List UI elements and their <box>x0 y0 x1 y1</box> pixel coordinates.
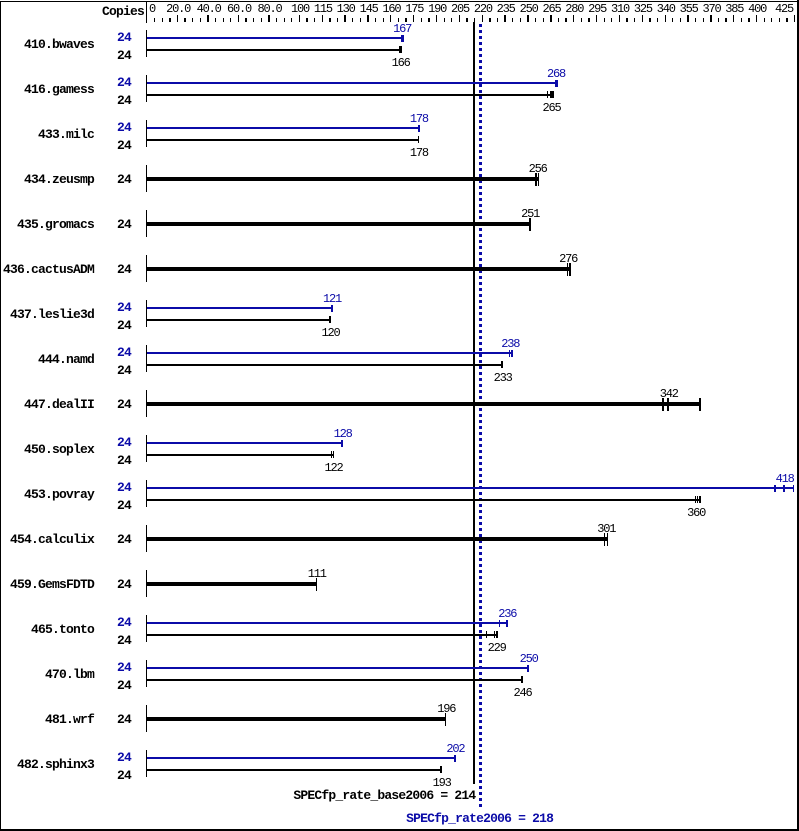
group 465.tonto <box>146 615 148 642</box>
group 470.lbm <box>146 660 148 687</box>
group 416.gamess <box>146 75 148 102</box>
group 450.soplex <box>146 435 148 462</box>
base median line 214 <box>473 22 475 784</box>
group 459.GemsFDTD <box>146 570 148 597</box>
ruler ticks <box>154 18 155 22</box>
group 435.gromacs <box>146 210 148 237</box>
group 482.sphinx3 <box>146 750 148 777</box>
group 436.cactusADM <box>146 255 148 282</box>
base summary <box>215 789 475 802</box>
ruler labels <box>149 3 169 15</box>
group 437.leslie3d <box>146 300 148 327</box>
group 453.povray <box>146 480 148 507</box>
group 410.bwaves <box>146 30 148 57</box>
peak median line 218 (dotted) <box>479 24 482 808</box>
group 447.dealII <box>146 390 148 417</box>
Copies header <box>84 5 144 18</box>
group 433.milc <box>146 120 148 147</box>
peak summary <box>350 812 610 825</box>
group 481.wrf <box>146 705 148 732</box>
group 454.calculix <box>146 525 148 552</box>
group 434.zeusmp <box>146 165 148 192</box>
frame border <box>0 1 799 2</box>
group 444.namd <box>146 345 148 372</box>
